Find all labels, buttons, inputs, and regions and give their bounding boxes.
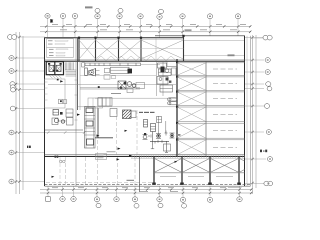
stair treads <box>65 62 77 76</box>
dimension tick marks left <box>15 36 21 183</box>
top dimension line 1 <box>40 25 251 27</box>
hall right-bay mid dashes <box>213 69 237 147</box>
column caps on top wall <box>78 35 185 39</box>
joint line x=139.5 <box>139 157 141 192</box>
top strip truss columns <box>79 36 184 61</box>
booth x88-102 y98-108 <box>88 98 103 108</box>
stair core hatch <box>50 76 62 79</box>
line y=98.2 <box>95 97 177 99</box>
bottom band columns <box>154 157 239 185</box>
mid strong double line <box>45 154 245 156</box>
bottom band mid dashes <box>160 176 233 178</box>
left dimension line 3 <box>22 36 24 190</box>
left dimension line 1 <box>15 32 17 194</box>
top grid bubble leaders <box>48 13 264 38</box>
elevator car left <box>49 65 54 71</box>
interior dashed grid verticals <box>60 110 137 184</box>
left wall <box>44 38 46 187</box>
grid bubbles bottom row <box>46 197 243 209</box>
flange ticks on x=76 <box>75 79 78 81</box>
small rect cluster below conveyor <box>104 75 110 79</box>
text row above strip <box>107 150 116 153</box>
text row near E8 <box>139 112 155 113</box>
elevator corner specks <box>48 63 62 71</box>
hall wall beam nodes <box>176 61 178 141</box>
tiny circle pair <box>59 160 65 163</box>
dark specks near stair room <box>57 79 100 88</box>
bottom band X braces <box>154 158 245 173</box>
right dimension line 1 <box>252 35 254 194</box>
elevator X marks <box>49 65 61 71</box>
top strip X bracing <box>79 38 184 61</box>
tall rack E7 <box>85 107 96 149</box>
right dimension line 2 <box>255 35 257 188</box>
wall x=98 <box>97 108 99 138</box>
schedule table <box>47 39 74 58</box>
conveyor row <box>85 63 160 73</box>
line y=84.7 <box>48 84 177 86</box>
grid bubbles left column <box>8 35 17 184</box>
right grid bubble leaders <box>244 38 266 184</box>
long line x=76 <box>75 38 77 186</box>
dimension tick marks right <box>251 36 253 184</box>
right wall inner <box>250 36 252 186</box>
top dimension line 2 <box>40 31 251 33</box>
line y=88.4 double <box>80 87 140 89</box>
small cluster x58-67 y99-104 <box>59 99 63 104</box>
bottom grid bubble leaders <box>48 186 240 203</box>
wall ticks on left wall <box>45 81 48 83</box>
interior dashed horizontal <box>46 182 152 184</box>
small table text <box>97 154 104 157</box>
hatched platform strip <box>131 155 245 158</box>
dimension chains <box>16 26 256 194</box>
risers above pumps <box>157 116 166 134</box>
section flag markers <box>50 19 177 178</box>
hall X braces <box>177 63 206 155</box>
transformer box <box>98 98 112 107</box>
interior walls <box>45 38 178 186</box>
wall corner y=137.5 <box>95 137 113 139</box>
stair core outer walls <box>46 62 63 75</box>
schedule table text specks <box>48 40 68 56</box>
bottom dimension line 2 <box>40 192 252 194</box>
small table bottom-left of strip <box>96 154 107 160</box>
grid bubbles top row <box>45 8 241 19</box>
hall beams <box>177 63 245 140</box>
mill cluster <box>80 61 177 96</box>
elevator car right <box>56 65 61 71</box>
bottom wall <box>45 183 251 185</box>
bottom dimension line 1 <box>40 189 252 191</box>
interior dim ticks y132.5 <box>47 131 85 133</box>
wall x=80 secondary <box>79 61 81 110</box>
wall y=130 left <box>45 129 84 131</box>
wall x=77.6 <box>77 38 79 110</box>
dimension tick marks top <box>45 25 251 33</box>
PR text <box>176 134 181 136</box>
core mullion <box>54 62 56 75</box>
bottom band column feet <box>152 183 241 185</box>
bottom wall 2 <box>45 185 251 187</box>
top wall right part <box>155 35 245 37</box>
stadium pair <box>168 98 178 105</box>
funnel machine <box>82 63 100 77</box>
hall left wall <box>176 59 178 157</box>
crane rail lines top right <box>184 41 244 56</box>
dimension tick marks bottom <box>47 188 253 194</box>
line y=106.8 <box>78 106 177 108</box>
machine E6 <box>52 109 73 125</box>
left dimension line 2 <box>19 32 21 194</box>
top wall left part <box>45 37 185 39</box>
pump cluster E9 <box>143 120 175 153</box>
main floor beam line <box>45 59 245 61</box>
hall mid column <box>205 61 207 156</box>
tiny text labels (as marks) <box>27 146 267 158</box>
truss web zigzag <box>96 56 176 61</box>
left grid bubble leaders <box>15 37 85 182</box>
hatched box E8 <box>110 109 136 119</box>
bubble number specks <box>11 15 271 200</box>
building outline <box>45 36 251 186</box>
grid bubbles right column <box>263 35 273 186</box>
right wall <box>244 36 246 186</box>
room x44-65 y79-108 <box>45 79 66 108</box>
small text left of joint <box>127 180 135 181</box>
label text dashes <box>111 92 121 95</box>
central cluster <box>118 81 145 93</box>
small dimension text dashes along chains <box>52 24 246 192</box>
